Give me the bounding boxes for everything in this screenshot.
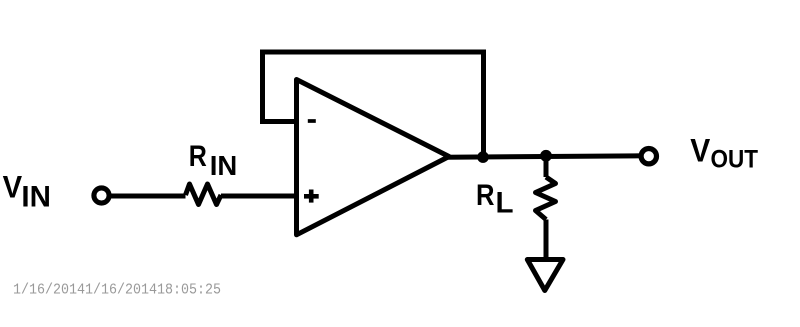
resistor RL <box>536 177 556 220</box>
wire RL to ground <box>544 220 549 261</box>
svg-text:V: V <box>690 133 711 169</box>
svg-text:IN: IN <box>21 181 51 214</box>
wire op-amp output to VOUT terminal <box>446 156 642 157</box>
svg-text:1/16/20141/16/201418:05:25: 1/16/20141/16/201418:05:25 <box>13 282 221 299</box>
wire input from VIN terminal to resistor RIN <box>102 194 186 199</box>
wire resistor RIN to op-amp non-inverting input <box>221 194 300 199</box>
node junction dot at feedback takeoff <box>477 151 489 163</box>
node junction dot at RL takeoff <box>540 150 552 162</box>
svg-text:R: R <box>476 179 495 212</box>
svg-text:V: V <box>3 169 23 205</box>
svg-text:OUT: OUT <box>711 146 759 174</box>
input terminal VIN <box>94 188 109 203</box>
op-amp non-inverting input plus sign <box>304 194 319 199</box>
output terminal VOUT <box>641 149 656 164</box>
op-amp U1 <box>297 80 450 235</box>
op-amp inverting input minus sign <box>308 119 316 123</box>
wire from output node down to RL <box>544 156 549 177</box>
ground <box>527 260 563 291</box>
wire feedback loop from output node to inverting input <box>263 52 484 157</box>
resistor RIN <box>186 184 222 205</box>
svg-text:R: R <box>189 140 207 173</box>
svg-text:IN: IN <box>210 150 238 181</box>
svg-text:L: L <box>496 186 514 219</box>
